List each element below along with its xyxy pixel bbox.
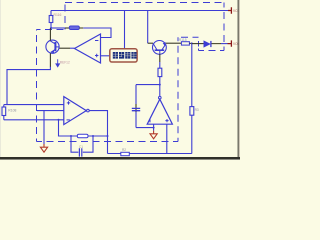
wire diode to port (dark) <box>212 43 222 45</box>
Q2 base lead black <box>159 54 161 62</box>
dashed region boundary (staircase polygon) <box>37 3 225 142</box>
wire blue segment to port <box>221 43 228 45</box>
feedback resistor <box>77 134 88 137</box>
wire node to R right <box>51 27 65 29</box>
node junction <box>50 27 52 29</box>
bottom resistor <box>121 152 130 155</box>
wire rail down to label box <box>124 11 126 49</box>
wire dark segment <box>65 27 70 29</box>
resistor on right vertical <box>190 107 194 116</box>
node <box>191 42 193 44</box>
capacitor plates on vertical wire <box>132 108 140 110</box>
resistor R (filled) <box>69 26 79 30</box>
Q1 collector wire (black) <box>49 28 51 41</box>
bottom rail <box>108 153 192 155</box>
wire down to cap <box>135 85 137 104</box>
U3 input marks <box>149 119 151 122</box>
U1 plus <box>95 54 98 57</box>
node <box>159 84 161 86</box>
U1 output wire to Q1 base <box>70 47 75 49</box>
top power rail wire <box>51 10 228 12</box>
wire resistor to node <box>159 77 161 85</box>
U2 output wire <box>90 111 108 154</box>
op-amp U1 (points left) <box>75 34 101 63</box>
screen borders <box>0 157 240 159</box>
svg-text:R108: R108 <box>8 109 16 113</box>
feedback node junction <box>58 119 60 121</box>
wire to U3 left input <box>136 127 154 129</box>
svg-text:R2: R2 <box>122 148 126 152</box>
left input wires <box>4 104 64 106</box>
wire down to ground <box>43 111 45 145</box>
svg-text:C1: C1 <box>79 145 83 149</box>
U2 minus <box>67 119 70 121</box>
op-amp U2 (points right) <box>64 97 87 125</box>
transistor Q2 <box>153 41 167 55</box>
U3 bubble <box>159 96 162 99</box>
svg-text:REF12: REF12 <box>60 61 70 65</box>
wire Q1 emitter to left column <box>7 67 50 105</box>
resistor R (vertical, Q2 base) <box>158 68 162 76</box>
diode D1 <box>204 41 210 47</box>
text 电压基准 (drawn glyph blocks) <box>113 52 137 59</box>
cap loop right side <box>83 136 93 152</box>
wire node down to bottom rail <box>191 43 193 153</box>
svg-text:R3: R3 <box>195 108 199 112</box>
junction dots on feedback wire <box>70 135 72 137</box>
cap loop left drop <box>71 136 78 152</box>
power arrow symbol at Q1 emitter <box>56 59 60 67</box>
wire rail to R116 <box>50 11 52 16</box>
feedback wire down and right <box>59 120 108 136</box>
VCC port top right <box>228 7 231 14</box>
Q2 collector wire black <box>148 42 153 44</box>
U1 minus <box>95 40 98 42</box>
transistor Q1 <box>46 40 59 53</box>
wire node left <box>136 84 160 86</box>
VCC port right (diode) <box>228 40 232 46</box>
svg-text:R116: R116 <box>54 13 62 17</box>
U3 apex wire <box>159 85 161 97</box>
U2 output bubble <box>87 109 90 112</box>
Q1 emitter wire (black) <box>49 53 51 67</box>
wire R116 to node <box>50 23 52 29</box>
label box 电压基准 <box>110 49 137 62</box>
ground arrow (red) <box>40 144 47 152</box>
capacitor C plates <box>79 148 81 156</box>
U3 right input lead to rail <box>166 124 168 153</box>
resistor R115 (horizontal) <box>181 42 189 45</box>
ground arrow under U3 (red) <box>150 131 157 139</box>
svg-text:R115: R115 <box>179 38 187 42</box>
Q2 emitter wire black <box>166 42 181 44</box>
wire node to diode (dark) <box>192 43 204 45</box>
U2 plus <box>67 101 70 104</box>
wire resistor dark segment <box>79 27 83 29</box>
wire R115 to node (black) <box>189 42 191 44</box>
resistor R116 <box>49 16 53 23</box>
op-amp U3 (points up) <box>147 99 172 124</box>
Q2 base lead blue <box>159 62 161 68</box>
U1 plus input wire to label box <box>101 55 110 57</box>
short wire with ground drop <box>37 110 64 112</box>
wire rail down to Q2 <box>147 11 149 44</box>
wire resistor to feedback corner <box>83 28 111 38</box>
resistor R108 (left) <box>3 105 5 107</box>
U3 left input lead <box>153 124 155 130</box>
